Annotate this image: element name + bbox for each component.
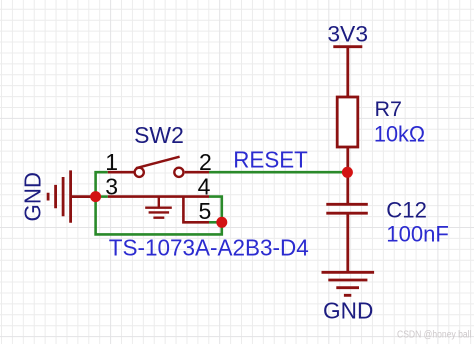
SW2 pin 3 / pin 4 row: [108, 195, 209, 198]
SW2 pin 1 stub: [108, 171, 134, 174]
svg-text:GND: GND: [323, 298, 373, 324]
svg-text:TS-1073A-A2B3-D4: TS-1073A-A2B3-D4: [109, 235, 309, 261]
svg-text:RESET: RESET: [233, 146, 307, 172]
svg-text:5: 5: [199, 198, 212, 224]
SW2 contact circle right: [174, 168, 183, 177]
svg-text:1: 1: [105, 149, 118, 175]
svg-text:2: 2: [199, 149, 212, 175]
wire RESET net (pin2 to R7/C12 junction): [209, 171, 347, 174]
SW2 pin 5 branch: [183, 197, 209, 223]
capacitor C12: [326, 204, 368, 272]
svg-text:CSDN @honey ball: CSDN @honey ball: [397, 329, 472, 340]
switch SW2: [108, 157, 209, 223]
svg-text:C12: C12: [386, 197, 427, 222]
SW2 pin 2 stub: [185, 171, 209, 174]
junction node RESET/R7/C12: [342, 167, 353, 178]
SW2 contact circle left: [135, 168, 144, 177]
power symbol 3V3: [333, 47, 362, 97]
svg-text:100nF: 100nF: [386, 222, 449, 247]
svg-text:GND: GND: [19, 172, 45, 222]
svg-text:4: 4: [198, 173, 211, 199]
svg-text:SW2: SW2: [134, 122, 184, 148]
wire GND net loop (pin1 left, down, bottom, up to pin4): [96, 172, 222, 234]
SW2 internal ground: [145, 197, 172, 218]
resistor R7: [337, 97, 358, 204]
junction node at pin3/left gnd: [90, 191, 101, 202]
wire junction to pin3: [96, 195, 108, 198]
svg-text:3V3: 3V3: [327, 21, 368, 46]
svg-text:10kΩ: 10kΩ: [374, 121, 425, 146]
ground (bottom, under C12): [322, 272, 375, 295]
svg-text:3: 3: [105, 173, 118, 199]
ground (left, rotated): [48, 170, 96, 222]
svg-text:R7: R7: [375, 97, 403, 121]
junction node at pin5: [216, 217, 227, 228]
SW2 actuator lever: [136, 157, 180, 169]
wire pin5 to net: [209, 221, 222, 224]
